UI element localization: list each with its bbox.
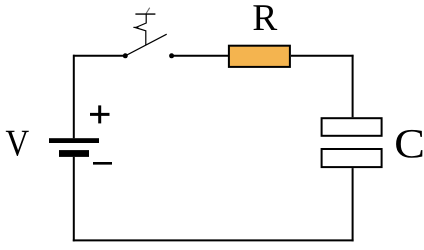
label C: [396, 130, 422, 158]
battery plus sign: [90, 105, 110, 123]
wire top-right: [291, 55, 354, 57]
wire right vertical upper: [352, 55, 354, 117]
battery V plate long (+): [49, 138, 99, 143]
wire top-left (node to switch): [73, 55, 125, 57]
battery V plate short (-): [59, 150, 89, 157]
resistor R: [229, 46, 290, 67]
switch S1 node left: [123, 53, 128, 58]
switch S1 node right: [169, 53, 174, 58]
wire right vertical lower: [352, 168, 354, 241]
capacitor C plate bottom: [322, 149, 382, 167]
battery minus sign: [93, 162, 112, 165]
wire bottom: [73, 239, 354, 241]
capacitor C plate top: [322, 118, 382, 136]
wire left vertical upper: [73, 55, 75, 138]
label R: [253, 5, 277, 30]
label V: [6, 131, 29, 156]
switch S1 blade: [125, 34, 166, 56]
switch S1 actuator spring: [133, 8, 155, 46]
wire left vertical lower: [73, 157, 75, 242]
wire switch to resistor: [172, 55, 228, 57]
